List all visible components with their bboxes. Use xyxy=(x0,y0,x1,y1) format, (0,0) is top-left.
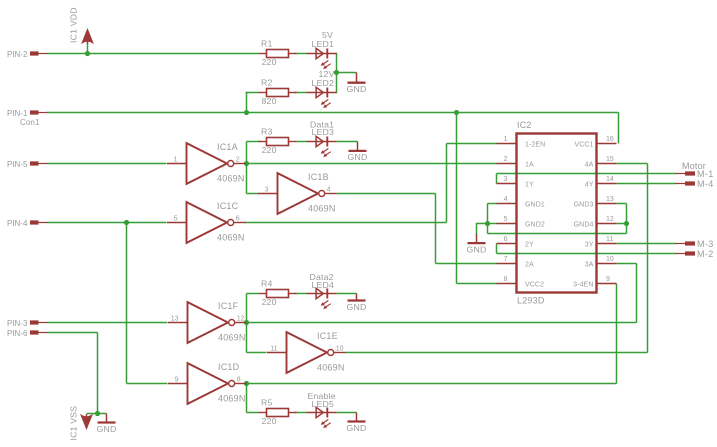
supply symbol IC1 VDD (arrow up) xyxy=(69,7,95,44)
wire R2 branch xyxy=(246,93,307,113)
svg-text:5V: 5V xyxy=(322,30,333,40)
svg-text:R2: R2 xyxy=(261,78,273,88)
motor pin M-3 xyxy=(676,239,714,249)
ground symbol (LED3) xyxy=(348,142,368,163)
inverter gate IC1B xyxy=(258,172,337,214)
svg-text:16: 16 xyxy=(606,136,614,143)
svg-text:VCC2: VCC2 xyxy=(525,281,544,288)
svg-text:2A: 2A xyxy=(525,261,534,268)
svg-text:4069N: 4069N xyxy=(217,233,245,243)
LED LED3 (Data1) xyxy=(307,120,337,157)
wire 3-4EN (pin9) to IC1D output xyxy=(245,284,617,384)
IC2 pin 9 (3-4EN) xyxy=(573,276,616,288)
svg-text:220: 220 xyxy=(262,416,277,426)
wire LED1/LED2 cathodes vertical xyxy=(336,53,338,93)
IC2 pin 7 (2A) xyxy=(497,256,534,268)
svg-text:1: 1 xyxy=(174,156,178,163)
connector pin PIN-5 xyxy=(7,160,47,169)
wire 2Y (pin6) to M-2 xyxy=(497,244,677,254)
svg-text:13: 13 xyxy=(171,315,179,322)
connector label Con1 xyxy=(20,118,40,127)
svg-text:PIN-2: PIN-2 xyxy=(7,50,28,59)
svg-text:IC1 VDD: IC1 VDD xyxy=(69,7,79,43)
svg-text:2Y: 2Y xyxy=(525,241,534,248)
svg-text:M-4: M-4 xyxy=(697,179,714,189)
svg-text:Con1: Con1 xyxy=(20,118,40,127)
svg-text:5: 5 xyxy=(504,216,508,223)
resistor R3 xyxy=(259,127,297,155)
ground symbol (LED1/LED2) xyxy=(347,73,367,95)
svg-text:4: 4 xyxy=(327,186,331,193)
svg-text:6: 6 xyxy=(504,236,508,243)
wire PIN-6 to VSS/GND xyxy=(47,333,98,414)
inverter gate IC1D xyxy=(168,362,247,404)
svg-text:4069N: 4069N xyxy=(317,363,345,373)
svg-text:GND3: GND3 xyxy=(574,201,594,208)
svg-text:11: 11 xyxy=(606,236,613,243)
junction PIN-4 / IC1C / IC1D xyxy=(124,220,129,225)
wire PIN-3 to IC1F input xyxy=(47,322,168,324)
svg-text:M-3: M-3 xyxy=(697,239,714,249)
wire LED3 to GND xyxy=(337,141,358,143)
wire GND2 (pin5) branch xyxy=(488,223,497,225)
svg-text:4: 4 xyxy=(504,196,508,203)
svg-text:R5: R5 xyxy=(261,398,273,408)
LED LED5 (Enable) xyxy=(307,391,337,428)
wire to GND symbol (top) xyxy=(337,72,357,74)
ground symbol (LED4) xyxy=(347,294,367,312)
svg-text:IC1A: IC1A xyxy=(217,142,238,152)
svg-text:1: 1 xyxy=(504,136,508,143)
wire VSS branch xyxy=(87,413,98,415)
svg-text:GND: GND xyxy=(347,423,367,433)
junction GND1/GND2 xyxy=(485,221,490,226)
connector pin PIN-6 xyxy=(7,329,47,338)
svg-text:PIN-5: PIN-5 xyxy=(7,160,28,169)
IC2 pin 6 (2Y) xyxy=(497,236,534,248)
junction PIN-6/VSS/GND xyxy=(95,411,100,416)
svg-text:LED2: LED2 xyxy=(312,78,335,88)
resistor R2 xyxy=(259,78,297,106)
svg-text:M-2: M-2 xyxy=(697,249,714,259)
wire 1Y (pin3) to M-1 xyxy=(497,174,677,184)
svg-text:6: 6 xyxy=(236,215,240,222)
LED LED1 (5V) xyxy=(307,30,337,69)
IC2 pin 1 (1-2EN) xyxy=(497,136,546,148)
junction IC1D out / R5 xyxy=(244,381,249,386)
connector pin PIN-3 xyxy=(7,319,47,328)
svg-text:12: 12 xyxy=(237,315,245,322)
wire 4A (pin15) to IC1E output xyxy=(346,164,648,353)
svg-text:M-1: M-1 xyxy=(697,169,714,179)
svg-text:GND: GND xyxy=(348,152,368,162)
wire PIN-1 net (y=112) xyxy=(47,113,619,144)
svg-text:GND4: GND4 xyxy=(574,221,594,228)
svg-text:9: 9 xyxy=(175,376,179,383)
svg-text:9: 9 xyxy=(606,276,610,283)
IC2 pin 11 (3Y) xyxy=(585,236,617,248)
IC2 pin 13 (GND3) xyxy=(574,196,617,208)
wire to GND symbol (IC) xyxy=(477,223,488,235)
svg-text:820: 820 xyxy=(262,96,277,106)
svg-text:4069N: 4069N xyxy=(308,204,336,214)
svg-text:PIN-6: PIN-6 xyxy=(7,329,28,338)
wire 3A (pin10) to IC1F output xyxy=(245,264,637,323)
svg-text:7: 7 xyxy=(504,256,508,263)
svg-text:PIN-1: PIN-1 xyxy=(7,109,28,118)
svg-text:Data2: Data2 xyxy=(310,272,334,282)
svg-text:IC1F: IC1F xyxy=(218,301,239,311)
connector pin PIN-4 xyxy=(7,219,47,228)
svg-text:4069N: 4069N xyxy=(217,174,245,184)
svg-text:12V: 12V xyxy=(319,69,335,79)
svg-text:8: 8 xyxy=(504,276,508,283)
wire R3 row xyxy=(247,141,307,143)
svg-text:10: 10 xyxy=(606,256,614,263)
resistor R4 xyxy=(259,279,297,307)
junction IC1F out / R4 / IC1E in xyxy=(244,320,249,325)
inverter gate IC1A xyxy=(167,142,246,184)
wire PIN-2 / VDD net (y=53) xyxy=(47,43,259,54)
junction GND3/GND4 xyxy=(624,221,629,226)
wire node2 vertical R3/IC1A/IC1B xyxy=(246,142,248,194)
svg-text:GND: GND xyxy=(347,302,367,312)
IC2 pin 10 (3A) xyxy=(585,256,617,268)
wire 4Y (pin14) to M-4 xyxy=(617,183,677,185)
wire R1 to LED1 xyxy=(295,53,307,55)
junction PIN-1/R2 xyxy=(244,110,249,115)
resistor R5 xyxy=(259,398,297,426)
ground symbol (bottom left) xyxy=(97,414,117,434)
svg-text:220: 220 xyxy=(262,145,277,155)
svg-text:4Y: 4Y xyxy=(585,181,594,188)
wire GND1 (pin4) branch xyxy=(488,204,497,234)
svg-text:3-4EN: 3-4EN xyxy=(573,281,593,288)
svg-text:R1: R1 xyxy=(261,39,273,49)
svg-text:IC2: IC2 xyxy=(517,120,532,130)
svg-text:11: 11 xyxy=(270,345,277,352)
resistor R1 xyxy=(259,39,297,67)
LED LED2 (12V) xyxy=(307,69,337,108)
wire GND4 (pin12) branch xyxy=(617,223,627,225)
wire PIN-5 to IC1A input xyxy=(47,163,167,165)
svg-text:10: 10 xyxy=(336,345,344,352)
svg-text:PIN-4: PIN-4 xyxy=(7,219,28,228)
wire LED4 to GND xyxy=(337,293,357,295)
svg-text:GND: GND xyxy=(97,424,117,434)
svg-text:4069N: 4069N xyxy=(218,394,246,404)
svg-text:3A: 3A xyxy=(585,261,594,268)
wire 3Y (pin11) to M-3 xyxy=(617,243,677,245)
svg-text:LED1: LED1 xyxy=(312,39,335,49)
svg-text:1-2EN: 1-2EN xyxy=(525,141,545,148)
inverter gate IC1C xyxy=(167,201,246,243)
svg-text:220: 220 xyxy=(262,57,277,67)
svg-text:13: 13 xyxy=(606,196,614,203)
junction LED cathodes/GND xyxy=(334,70,339,75)
inverter gate IC1E xyxy=(267,331,346,373)
IC2 pin 2 (1A) xyxy=(497,156,534,168)
svg-text:5: 5 xyxy=(174,215,178,222)
IC2 pin 5 (GND2) xyxy=(497,216,545,228)
IC2 pin 12 (GND4) xyxy=(574,216,617,228)
junction IC1A out / R3 / IC1B in xyxy=(244,161,249,166)
svg-text:IC1B: IC1B xyxy=(308,172,329,182)
svg-text:IC1D: IC1D xyxy=(218,362,240,372)
svg-text:Enable: Enable xyxy=(308,391,336,401)
supply symbol IC1 VSS (arrow down) xyxy=(69,406,94,441)
wire IC1B output to 2A (pin7) xyxy=(337,194,497,264)
driver IC IC2 body (L293D) xyxy=(517,120,597,306)
svg-text:GND: GND xyxy=(347,84,367,94)
motor header label xyxy=(682,161,706,171)
IC2 pin 15 (4A) xyxy=(585,156,617,168)
wire GND branch (bottom left) xyxy=(98,413,107,415)
wire LED5 to GND xyxy=(337,412,357,414)
wire GND bus under IC xyxy=(488,233,627,235)
svg-text:12: 12 xyxy=(606,216,614,223)
svg-text:14: 14 xyxy=(606,176,614,183)
wire R4 branch xyxy=(247,294,307,323)
svg-text:GND2: GND2 xyxy=(525,221,545,228)
connector pin PIN-2 xyxy=(7,50,47,59)
junction PIN-1/VCC2 branch xyxy=(454,110,459,115)
svg-text:IC1C: IC1C xyxy=(217,201,239,211)
wire IC1B input xyxy=(247,193,259,195)
svg-text:IC1 VSS: IC1 VSS xyxy=(69,406,79,441)
IC2 pin 8 (VCC2) xyxy=(497,276,545,288)
IC2 pin 14 (4Y) xyxy=(585,176,617,188)
wire IC1A output to 1A (pin2) xyxy=(245,163,497,165)
svg-text:4069N: 4069N xyxy=(218,333,246,343)
svg-text:4A: 4A xyxy=(585,161,594,168)
svg-text:3Y: 3Y xyxy=(585,241,594,248)
svg-text:R4: R4 xyxy=(261,279,273,289)
ground symbol (LED5) xyxy=(347,413,367,433)
motor pin M-2 xyxy=(676,249,714,259)
svg-text:220: 220 xyxy=(262,297,277,307)
wire IC1C output to 1-2EN (pin1) xyxy=(245,144,497,223)
IC2 pin 16 (VCC1) xyxy=(574,136,616,148)
svg-text:2: 2 xyxy=(504,156,508,163)
svg-text:1Y: 1Y xyxy=(525,181,534,188)
wire VCC2 branch (to pin 8) xyxy=(457,113,497,284)
junction PIN-2/VDD xyxy=(85,51,90,56)
IC2 pin 4 (GND1) xyxy=(497,196,545,208)
svg-text:GND: GND xyxy=(467,244,487,254)
IC2 pin 3 (1Y) xyxy=(497,176,534,188)
inverter gate IC1F xyxy=(168,301,247,343)
wire PIN-4 branch to IC1D input xyxy=(127,223,168,384)
svg-text:IC1E: IC1E xyxy=(317,331,338,341)
motor pin M-4 xyxy=(676,179,714,189)
connector pin PIN-1 xyxy=(7,109,47,118)
wire GND3 (pin13) branch xyxy=(617,204,627,234)
svg-text:8: 8 xyxy=(237,376,241,383)
wire IC1E input xyxy=(247,323,267,353)
svg-text:3: 3 xyxy=(265,186,269,193)
svg-text:R3: R3 xyxy=(261,127,273,137)
svg-text:GND1: GND1 xyxy=(525,201,545,208)
svg-text:2: 2 xyxy=(236,156,240,163)
svg-text:VCC1: VCC1 xyxy=(574,141,593,148)
svg-text:PIN-3: PIN-3 xyxy=(7,319,28,328)
svg-text:15: 15 xyxy=(606,156,614,163)
svg-text:Data1: Data1 xyxy=(310,120,334,130)
motor pin M-1 xyxy=(676,169,714,179)
wire PIN-4 to IC1C input xyxy=(47,222,167,224)
svg-text:3: 3 xyxy=(504,176,508,183)
wire R5 branch xyxy=(247,384,307,413)
LED LED4 (Data2) xyxy=(307,272,337,309)
svg-text:L293D: L293D xyxy=(517,296,545,306)
ground symbol (IC2 GND pins) xyxy=(467,234,487,254)
svg-text:1A: 1A xyxy=(525,161,534,168)
